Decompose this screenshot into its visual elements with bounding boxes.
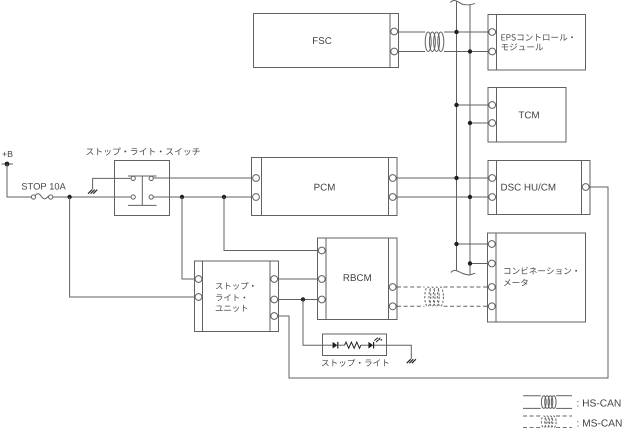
wire switch to PCM pin 1 bbox=[153, 177, 251, 179]
label STOP 10A fuse value bbox=[22, 183, 66, 190]
junction CAN-L bus bbox=[468, 49, 472, 53]
op EPS control module box bbox=[488, 15, 586, 71]
fuse STOP 10A bbox=[31, 195, 35, 199]
bus break symbol bottom bbox=[451, 270, 475, 275]
junction CAN-H bus bbox=[454, 30, 458, 34]
wire D2 to box edge bbox=[374, 344, 387, 346]
op FSC box bbox=[254, 14, 399, 68]
wire RBCM to meter MS-CAN H (dashed) bbox=[397, 286, 425, 288]
label ライト・(unit l2) bbox=[216, 294, 245, 301]
label RBCM bbox=[344, 274, 371, 281]
label ユニット(unit l3) bbox=[216, 305, 248, 312]
wire RBCM to meter MS-CAN L (dashed) bbox=[397, 305, 425, 307]
switch contact lower-right bbox=[149, 195, 153, 199]
wire resistor to D2 bbox=[361, 344, 369, 346]
op RBCM box bbox=[318, 238, 398, 320]
pin UNIT-R3 bbox=[271, 313, 278, 320]
wire switch to PCM pin 2 bbox=[153, 196, 251, 198]
label ストップ・(unit l1) bbox=[216, 282, 254, 290]
wire inside stop light bbox=[323, 344, 333, 346]
twisted pair symbol (MS-CAN, dashed) bbox=[425, 287, 431, 306]
switch bottom bar bbox=[128, 204, 157, 206]
lamp stop light box bbox=[323, 334, 387, 356]
pin PCM-R1 bbox=[389, 175, 396, 182]
junction PCM CAN-L bbox=[468, 195, 472, 199]
pin UNIT-L2 bbox=[195, 294, 202, 301]
label : MS-CAN bbox=[577, 419, 621, 426]
pin EPS-2 bbox=[489, 48, 496, 55]
wire unit pin R3 loop to DSC right pin bbox=[279, 187, 609, 378]
ground (switch) bbox=[88, 190, 92, 194]
twisted pair symbol (HS-CAN) bbox=[425, 32, 431, 52]
label モジュール bbox=[501, 43, 543, 50]
node +B battery terminal bbox=[2, 163, 14, 165]
label メータ bbox=[504, 279, 528, 286]
legend HS-CAN wire pair bbox=[523, 395, 541, 397]
resistor (stop light) bbox=[345, 342, 361, 348]
label ストップ・ライト・スイッチ bbox=[86, 147, 199, 155]
junction TCM CAN-L bbox=[468, 121, 472, 125]
junction to stop light unit pin A bbox=[180, 195, 184, 199]
junction stop light feed bbox=[301, 297, 305, 301]
label ストップ・ライト bbox=[322, 359, 389, 367]
wire junction to stop light unit pin B bbox=[70, 197, 195, 297]
label : HS-CAN bbox=[577, 399, 620, 406]
wire fuse to stop light switch bbox=[53, 196, 131, 198]
op stop light unit box bbox=[195, 261, 279, 332]
diode D2 (LED) bbox=[368, 342, 373, 349]
wire TCM pin2 to bus bbox=[470, 122, 488, 124]
pin DSC-R1 bbox=[582, 184, 589, 191]
LED emission arrows bbox=[374, 338, 379, 342]
bus break symbol top bbox=[450, 1, 475, 5]
pin RBCM-L1 bbox=[318, 247, 325, 254]
legend MS-CAN twisted pair symbol bbox=[541, 416, 546, 428]
pin RBCM-R1 bbox=[389, 284, 396, 291]
wire TCM pin1 to bus bbox=[457, 104, 489, 106]
switch contact upper-right bbox=[149, 176, 153, 180]
pin METER-3 bbox=[488, 284, 495, 291]
diode D1 (LED) bbox=[333, 342, 338, 349]
pin DSC-L1 bbox=[489, 175, 496, 182]
label EPSコントロール・ bbox=[501, 34, 573, 41]
switch contact bridge top bar bbox=[128, 175, 157, 177]
op DSC HU/CM box bbox=[488, 161, 590, 215]
pin METER-2 bbox=[488, 260, 495, 267]
wire junction down to stop light bbox=[303, 300, 323, 346]
wire PCM to DSC (CAN L) bbox=[397, 196, 488, 198]
pin TCM-2 bbox=[489, 120, 496, 127]
junction to RBCM pin 1 bbox=[222, 195, 226, 199]
pin RBCM-L3 bbox=[318, 296, 325, 303]
pin UNIT-R1 bbox=[271, 276, 278, 283]
pin METER-4 bbox=[488, 303, 495, 310]
op combination meter box bbox=[488, 233, 586, 322]
pin DSC-L2 bbox=[489, 194, 496, 201]
label TCM bbox=[519, 111, 539, 118]
pin METER-1 bbox=[488, 241, 495, 248]
pin RBCM-L2 bbox=[318, 276, 325, 283]
pin PCM-L1 bbox=[253, 175, 260, 182]
pin TCM-1 bbox=[489, 102, 496, 109]
junction meter CAN-L bbox=[468, 261, 472, 265]
wire meter pin2 to bus bbox=[470, 263, 488, 265]
ground (stop light) bbox=[407, 359, 411, 363]
wire unit pin R2 to RBCM pin 3 bbox=[279, 299, 318, 301]
wire FSC pin1 to EPS (CAN H) bbox=[399, 31, 426, 33]
label PCM bbox=[314, 184, 334, 191]
junction fuse/stop-light-unit bbox=[67, 195, 71, 199]
wire stop light to ground bbox=[387, 345, 412, 359]
pin UNIT-L1 bbox=[195, 276, 202, 283]
op PCM box bbox=[252, 158, 398, 216]
legend MS-CAN wire pair (dashed) bbox=[523, 415, 541, 417]
wire +B to fuse bbox=[7, 164, 31, 197]
op TCM box bbox=[488, 88, 566, 143]
wire FSC pin2 to EPS (CAN L) bbox=[399, 51, 426, 53]
wire HS-CAN bus line 2 (right vertical) bbox=[469, 5, 471, 275]
junction TCM CAN-H bbox=[454, 103, 458, 107]
label コンビネーション・ bbox=[504, 267, 577, 275]
label FSC bbox=[313, 37, 331, 44]
switch actuator bbox=[141, 176, 143, 205]
pin FSC-1 bbox=[391, 28, 398, 35]
legend HS-CAN twisted pair symbol bbox=[541, 396, 546, 409]
wire meter pin1 to bus bbox=[457, 243, 488, 245]
wire junction to stop light unit pin A bbox=[182, 197, 195, 279]
wire unit pin R1 to RBCM pin 2 bbox=[279, 278, 318, 280]
pin EPS-1 bbox=[489, 29, 496, 36]
pin FSC-2 bbox=[391, 48, 398, 55]
wire D1 to resistor bbox=[338, 344, 345, 346]
wire junction to RBCM pin 1 bbox=[224, 197, 318, 251]
junction meter CAN-H bbox=[454, 242, 458, 246]
pin UNIT-R2 bbox=[271, 296, 278, 303]
switch box ストップ・ライト・スイッチ bbox=[115, 161, 170, 216]
pin RBCM-R2 bbox=[389, 303, 396, 310]
switch contact upper-left bbox=[131, 176, 135, 180]
label DSC HU/CM bbox=[501, 183, 555, 190]
pin PCM-R2 bbox=[389, 194, 396, 201]
pin PCM-L2 bbox=[253, 194, 260, 201]
switch contact lower-left bbox=[131, 195, 135, 199]
wire HS-CAN bus line 1 (left vertical) bbox=[456, 2, 458, 271]
junction PCM CAN-H bbox=[454, 176, 458, 180]
wire PCM to DSC (CAN H) bbox=[397, 177, 488, 179]
wire switch upper contact to ground bbox=[93, 178, 132, 189]
label +B bbox=[2, 151, 12, 157]
